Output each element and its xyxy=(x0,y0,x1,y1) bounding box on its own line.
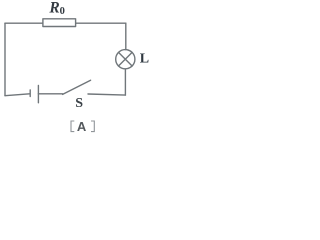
svg-text:0: 0 xyxy=(60,6,65,17)
battery B1 short plate xyxy=(29,90,31,97)
lamp L circle xyxy=(116,50,135,69)
wire top xyxy=(5,22,126,24)
wire battery to switch xyxy=(38,93,62,95)
wire right lower xyxy=(124,69,126,95)
wire switch to corner xyxy=(88,94,125,95)
switch S blade xyxy=(63,80,91,94)
caption bracket left xyxy=(71,121,74,132)
lamp L cross xyxy=(119,52,133,66)
battery B1 long plate xyxy=(37,85,39,102)
svg-text:A: A xyxy=(77,119,87,134)
svg-text:S: S xyxy=(75,96,83,111)
wire right upper xyxy=(125,23,127,50)
svg-text:R: R xyxy=(48,0,59,16)
svg-text:L: L xyxy=(140,52,149,67)
wire bottom-left xyxy=(5,94,30,96)
resistor R0 body xyxy=(43,19,76,27)
caption bracket right xyxy=(91,121,94,132)
wire left xyxy=(4,23,6,95)
